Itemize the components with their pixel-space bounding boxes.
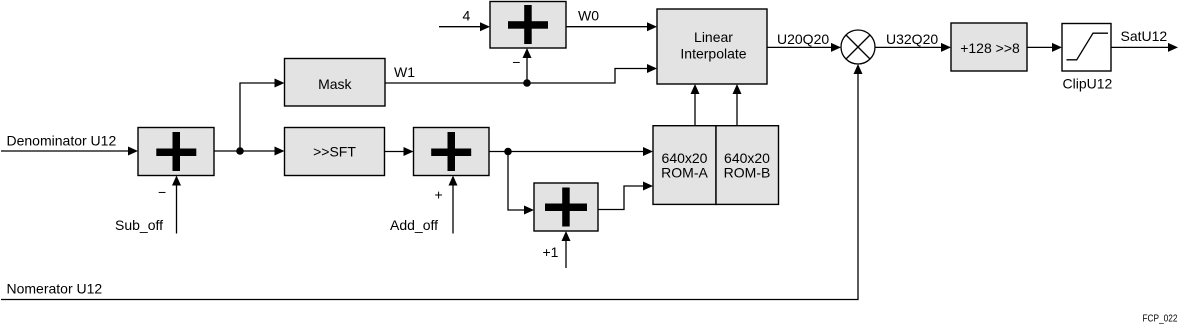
adder A2 xyxy=(414,128,490,176)
block ROM-A xyxy=(653,126,716,205)
adder A1 xyxy=(138,128,214,176)
svg-text:U32Q20: U32Q20 xyxy=(886,31,938,47)
block Linear Interpolate xyxy=(657,9,767,84)
svg-text:ROM-A: ROM-A xyxy=(661,165,708,181)
junction N3 xyxy=(504,148,512,156)
svg-text:FCP_022: FCP_022 xyxy=(1143,313,1178,324)
wire A1 to SFT xyxy=(214,150,279,152)
block SFT shifter xyxy=(285,128,385,176)
svg-text:+1: +1 xyxy=(543,244,559,260)
svg-text:SatU12: SatU12 xyxy=(1121,28,1168,44)
svg-text:Linear: Linear xyxy=(694,29,733,45)
wire nomerator input to multiplier xyxy=(1,70,858,300)
block rounder +128 >>8 xyxy=(951,23,1027,71)
block ClipU12 xyxy=(1062,24,1113,92)
wire N2 to A0 xyxy=(526,54,528,84)
svg-text:4: 4 xyxy=(463,8,471,24)
svg-text:W0: W0 xyxy=(578,8,599,24)
wire +1 input xyxy=(565,237,567,269)
block Mask xyxy=(285,59,386,107)
wire SFT to A2 xyxy=(385,151,408,153)
adder A3 xyxy=(534,183,598,231)
wire A2 to ROM-A xyxy=(489,151,647,153)
wire A3 to ROM-A xyxy=(598,186,647,210)
wire multiplier to rounder xyxy=(875,46,945,48)
svg-text:Nomerator U12: Nomerator U12 xyxy=(7,281,103,297)
wire clip output SatU12 xyxy=(1111,46,1172,48)
wire constant 4 input xyxy=(439,26,484,28)
adder A0 xyxy=(490,2,566,49)
svg-text:U20Q20: U20Q20 xyxy=(777,31,829,47)
svg-text:−: − xyxy=(512,54,520,70)
wire W0 to interpolator xyxy=(566,26,651,28)
junction N1 xyxy=(236,147,244,155)
svg-text:Interpolate: Interpolate xyxy=(680,46,746,62)
svg-text:Add_off: Add_off xyxy=(390,217,438,233)
svg-text:−: − xyxy=(158,184,166,200)
svg-text:Denominator U12: Denominator U12 xyxy=(7,133,117,149)
wire Sub_off input xyxy=(176,181,178,234)
svg-text:>>SFT: >>SFT xyxy=(313,144,356,160)
svg-text:+: + xyxy=(435,187,443,203)
wire denominator input xyxy=(1,150,132,152)
junction N2 xyxy=(523,79,531,87)
wire rounder to clip xyxy=(1027,46,1056,48)
wire Mask out W1 xyxy=(385,69,651,84)
svg-text:ClipU12: ClipU12 xyxy=(1063,76,1113,92)
wire ROM-B to interpolator xyxy=(736,90,738,126)
svg-text:+128 >>8: +128 >>8 xyxy=(960,40,1020,56)
svg-text:Mask: Mask xyxy=(318,76,352,92)
svg-text:ROM-B: ROM-B xyxy=(724,165,771,181)
svg-text:W1: W1 xyxy=(394,64,415,80)
svg-text:Sub_off: Sub_off xyxy=(115,217,163,233)
wire Add_off input xyxy=(452,181,454,234)
wire N1 to Mask xyxy=(240,83,279,151)
wire N3 down to A3 xyxy=(508,152,528,211)
block ROM-B xyxy=(716,126,779,205)
wire ROM-A to interpolator xyxy=(694,90,696,126)
multiplier M1 xyxy=(841,30,875,64)
wire interpolator to multiplier xyxy=(767,46,835,48)
